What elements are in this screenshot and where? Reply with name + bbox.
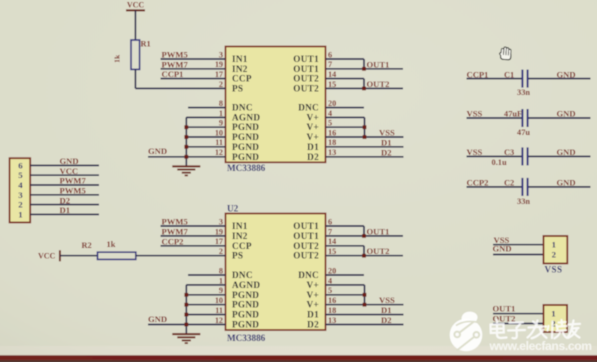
svg-text:6: 6 xyxy=(328,217,332,226)
svg-text:1: 1 xyxy=(552,240,556,250)
svg-text:20: 20 xyxy=(328,99,336,108)
svg-text:OUT2: OUT2 xyxy=(367,79,390,89)
svg-text:11: 11 xyxy=(215,306,223,315)
svg-text:1k: 1k xyxy=(107,240,116,249)
svg-text:VSS: VSS xyxy=(467,109,483,119)
svg-text:R2: R2 xyxy=(82,241,92,250)
svg-text:16: 16 xyxy=(328,128,336,137)
svg-text:20: 20 xyxy=(328,266,336,275)
svg-text:CCP1: CCP1 xyxy=(467,69,489,79)
svg-text:PGND: PGND xyxy=(232,290,259,300)
svg-text:14: 14 xyxy=(328,70,336,79)
svg-text:17: 17 xyxy=(215,70,223,79)
svg-text:4: 4 xyxy=(328,276,332,285)
svg-text:DNC: DNC xyxy=(298,270,319,280)
svg-text:www.elecfans.com: www.elecfans.com xyxy=(489,339,592,353)
svg-text:VCC: VCC xyxy=(38,252,56,261)
svg-text:3: 3 xyxy=(219,217,223,226)
svg-text:1: 1 xyxy=(551,309,555,319)
svg-text:PGND: PGND xyxy=(232,142,259,152)
svg-text:15: 15 xyxy=(328,80,336,89)
svg-text:OUT2: OUT2 xyxy=(367,246,390,256)
svg-text:V+: V+ xyxy=(307,122,319,132)
svg-text:PGND: PGND xyxy=(232,122,259,132)
svg-text:9: 9 xyxy=(219,286,223,295)
svg-text:VSS: VSS xyxy=(379,128,395,138)
svg-text:PWM5: PWM5 xyxy=(60,186,86,196)
svg-text:GND: GND xyxy=(493,244,512,254)
svg-text:CCP1: CCP1 xyxy=(162,69,184,79)
svg-text:18: 18 xyxy=(328,306,336,315)
svg-text:OUT1: OUT1 xyxy=(367,59,390,69)
svg-text:OUT1: OUT1 xyxy=(293,64,319,74)
svg-text:V+: V+ xyxy=(307,290,319,300)
svg-text:3: 3 xyxy=(219,50,223,59)
svg-text:OUT1: OUT1 xyxy=(367,226,390,236)
svg-text:DNC: DNC xyxy=(232,270,253,280)
svg-text:CCP: CCP xyxy=(232,241,252,251)
svg-text:1k: 1k xyxy=(113,54,122,63)
svg-text:D2: D2 xyxy=(381,315,392,325)
svg-text:PGND: PGND xyxy=(232,300,259,310)
svg-text:V+: V+ xyxy=(307,300,319,310)
svg-text:D1: D1 xyxy=(60,205,71,215)
svg-text:GND: GND xyxy=(557,69,576,79)
svg-text:5: 5 xyxy=(18,170,23,180)
svg-text:16: 16 xyxy=(328,296,336,305)
svg-text:C1: C1 xyxy=(504,70,514,79)
svg-text:PS: PS xyxy=(232,83,243,93)
svg-text:19: 19 xyxy=(215,227,223,236)
svg-text:19: 19 xyxy=(215,60,223,69)
svg-text:PGND: PGND xyxy=(232,132,259,142)
svg-text:5: 5 xyxy=(328,119,332,128)
svg-text:MC33886: MC33886 xyxy=(227,333,266,343)
svg-text:2: 2 xyxy=(552,249,557,259)
svg-text:OUT1: OUT1 xyxy=(293,54,319,64)
svg-text:PGND: PGND xyxy=(232,310,259,320)
svg-text:0.1u: 0.1u xyxy=(492,158,507,167)
svg-text:PGND: PGND xyxy=(232,152,259,162)
svg-text:IN2: IN2 xyxy=(232,64,248,74)
svg-text:C2: C2 xyxy=(504,179,514,188)
svg-text:IN1: IN1 xyxy=(232,221,248,231)
svg-text:DNC: DNC xyxy=(232,103,253,113)
svg-text:CCP2: CCP2 xyxy=(162,236,184,246)
svg-text:2: 2 xyxy=(219,80,223,89)
svg-text:11: 11 xyxy=(215,138,223,147)
svg-text:OUT2: OUT2 xyxy=(293,241,319,251)
svg-text:2: 2 xyxy=(219,247,223,256)
svg-text:PWM7: PWM7 xyxy=(162,226,189,236)
svg-text:AGND: AGND xyxy=(232,280,260,290)
svg-text:D2: D2 xyxy=(60,195,71,205)
svg-text:OUT1: OUT1 xyxy=(293,231,319,241)
svg-text:13: 13 xyxy=(328,316,336,325)
svg-text:D1: D1 xyxy=(381,137,392,147)
svg-text:6: 6 xyxy=(328,50,332,59)
svg-text:1: 1 xyxy=(18,209,22,219)
svg-text:VCC: VCC xyxy=(127,0,145,9)
svg-text:PWM5: PWM5 xyxy=(162,50,188,60)
svg-text:1: 1 xyxy=(219,276,223,285)
svg-text:C3: C3 xyxy=(504,148,514,157)
svg-text:VSS: VSS xyxy=(545,264,563,274)
svg-text:GND: GND xyxy=(557,147,576,157)
svg-text:VSS: VSS xyxy=(467,147,483,157)
svg-text:15: 15 xyxy=(328,247,336,256)
svg-text:D2: D2 xyxy=(307,320,319,330)
svg-text:12: 12 xyxy=(215,316,223,325)
svg-text:13: 13 xyxy=(328,148,336,157)
svg-text:GND: GND xyxy=(148,314,167,324)
svg-text:CCP2: CCP2 xyxy=(467,178,489,188)
svg-text:IN2: IN2 xyxy=(232,231,248,241)
svg-text:PGND: PGND xyxy=(232,320,259,330)
svg-text:PS: PS xyxy=(232,251,243,261)
svg-text:GND: GND xyxy=(60,156,79,166)
svg-text:OUT2: OUT2 xyxy=(293,251,319,261)
svg-text:3: 3 xyxy=(18,190,23,200)
svg-text:GND: GND xyxy=(557,109,576,119)
svg-text:10: 10 xyxy=(215,296,223,305)
svg-text:GND: GND xyxy=(557,178,576,188)
svg-text:PWM7: PWM7 xyxy=(162,59,189,69)
svg-text:V+: V+ xyxy=(307,132,319,142)
svg-text:U2: U2 xyxy=(227,204,239,214)
svg-text:GND: GND xyxy=(148,146,167,156)
svg-text:8: 8 xyxy=(219,99,223,108)
svg-text:17: 17 xyxy=(215,237,223,246)
svg-text:PWM7: PWM7 xyxy=(60,176,87,186)
svg-text:VCC: VCC xyxy=(60,166,79,176)
svg-text:4: 4 xyxy=(328,109,332,118)
svg-text:12: 12 xyxy=(215,148,223,157)
svg-text:VSS: VSS xyxy=(379,295,395,305)
svg-text:V+: V+ xyxy=(307,280,319,290)
svg-text:PWM5: PWM5 xyxy=(162,217,188,227)
svg-text:D2: D2 xyxy=(381,147,392,157)
svg-text:OUT1: OUT1 xyxy=(493,304,516,314)
svg-text:D1: D1 xyxy=(307,310,319,320)
svg-text:4: 4 xyxy=(18,180,23,190)
svg-text:AGND: AGND xyxy=(232,112,260,122)
svg-text:47u: 47u xyxy=(517,128,530,137)
svg-text:OUT2: OUT2 xyxy=(293,83,319,93)
svg-text:7: 7 xyxy=(328,227,332,236)
svg-text:14: 14 xyxy=(328,237,336,246)
svg-text:5: 5 xyxy=(328,286,332,295)
svg-text:CCP: CCP xyxy=(232,74,252,84)
svg-text:OUT1: OUT1 xyxy=(293,221,319,231)
svg-text:D1: D1 xyxy=(307,142,319,152)
svg-text:33n: 33n xyxy=(517,197,530,206)
svg-text:9: 9 xyxy=(219,119,223,128)
svg-text:V+: V+ xyxy=(307,112,319,122)
svg-text:OUT2: OUT2 xyxy=(293,74,319,84)
svg-text:R1: R1 xyxy=(141,40,151,49)
svg-text:18: 18 xyxy=(328,138,336,147)
svg-text:D2: D2 xyxy=(307,152,319,162)
svg-text:6: 6 xyxy=(18,160,23,170)
svg-text:DNC: DNC xyxy=(298,103,319,113)
svg-text:47uF: 47uF xyxy=(504,110,522,119)
svg-text:IN1: IN1 xyxy=(232,54,248,64)
svg-text:7: 7 xyxy=(328,60,332,69)
svg-text:10: 10 xyxy=(215,128,223,137)
svg-text:8: 8 xyxy=(219,266,223,275)
svg-text:1: 1 xyxy=(219,109,223,118)
svg-text:33n: 33n xyxy=(517,88,530,97)
svg-text:D1: D1 xyxy=(381,305,392,315)
svg-text:MC33886: MC33886 xyxy=(227,163,266,173)
svg-text:2: 2 xyxy=(18,200,23,210)
